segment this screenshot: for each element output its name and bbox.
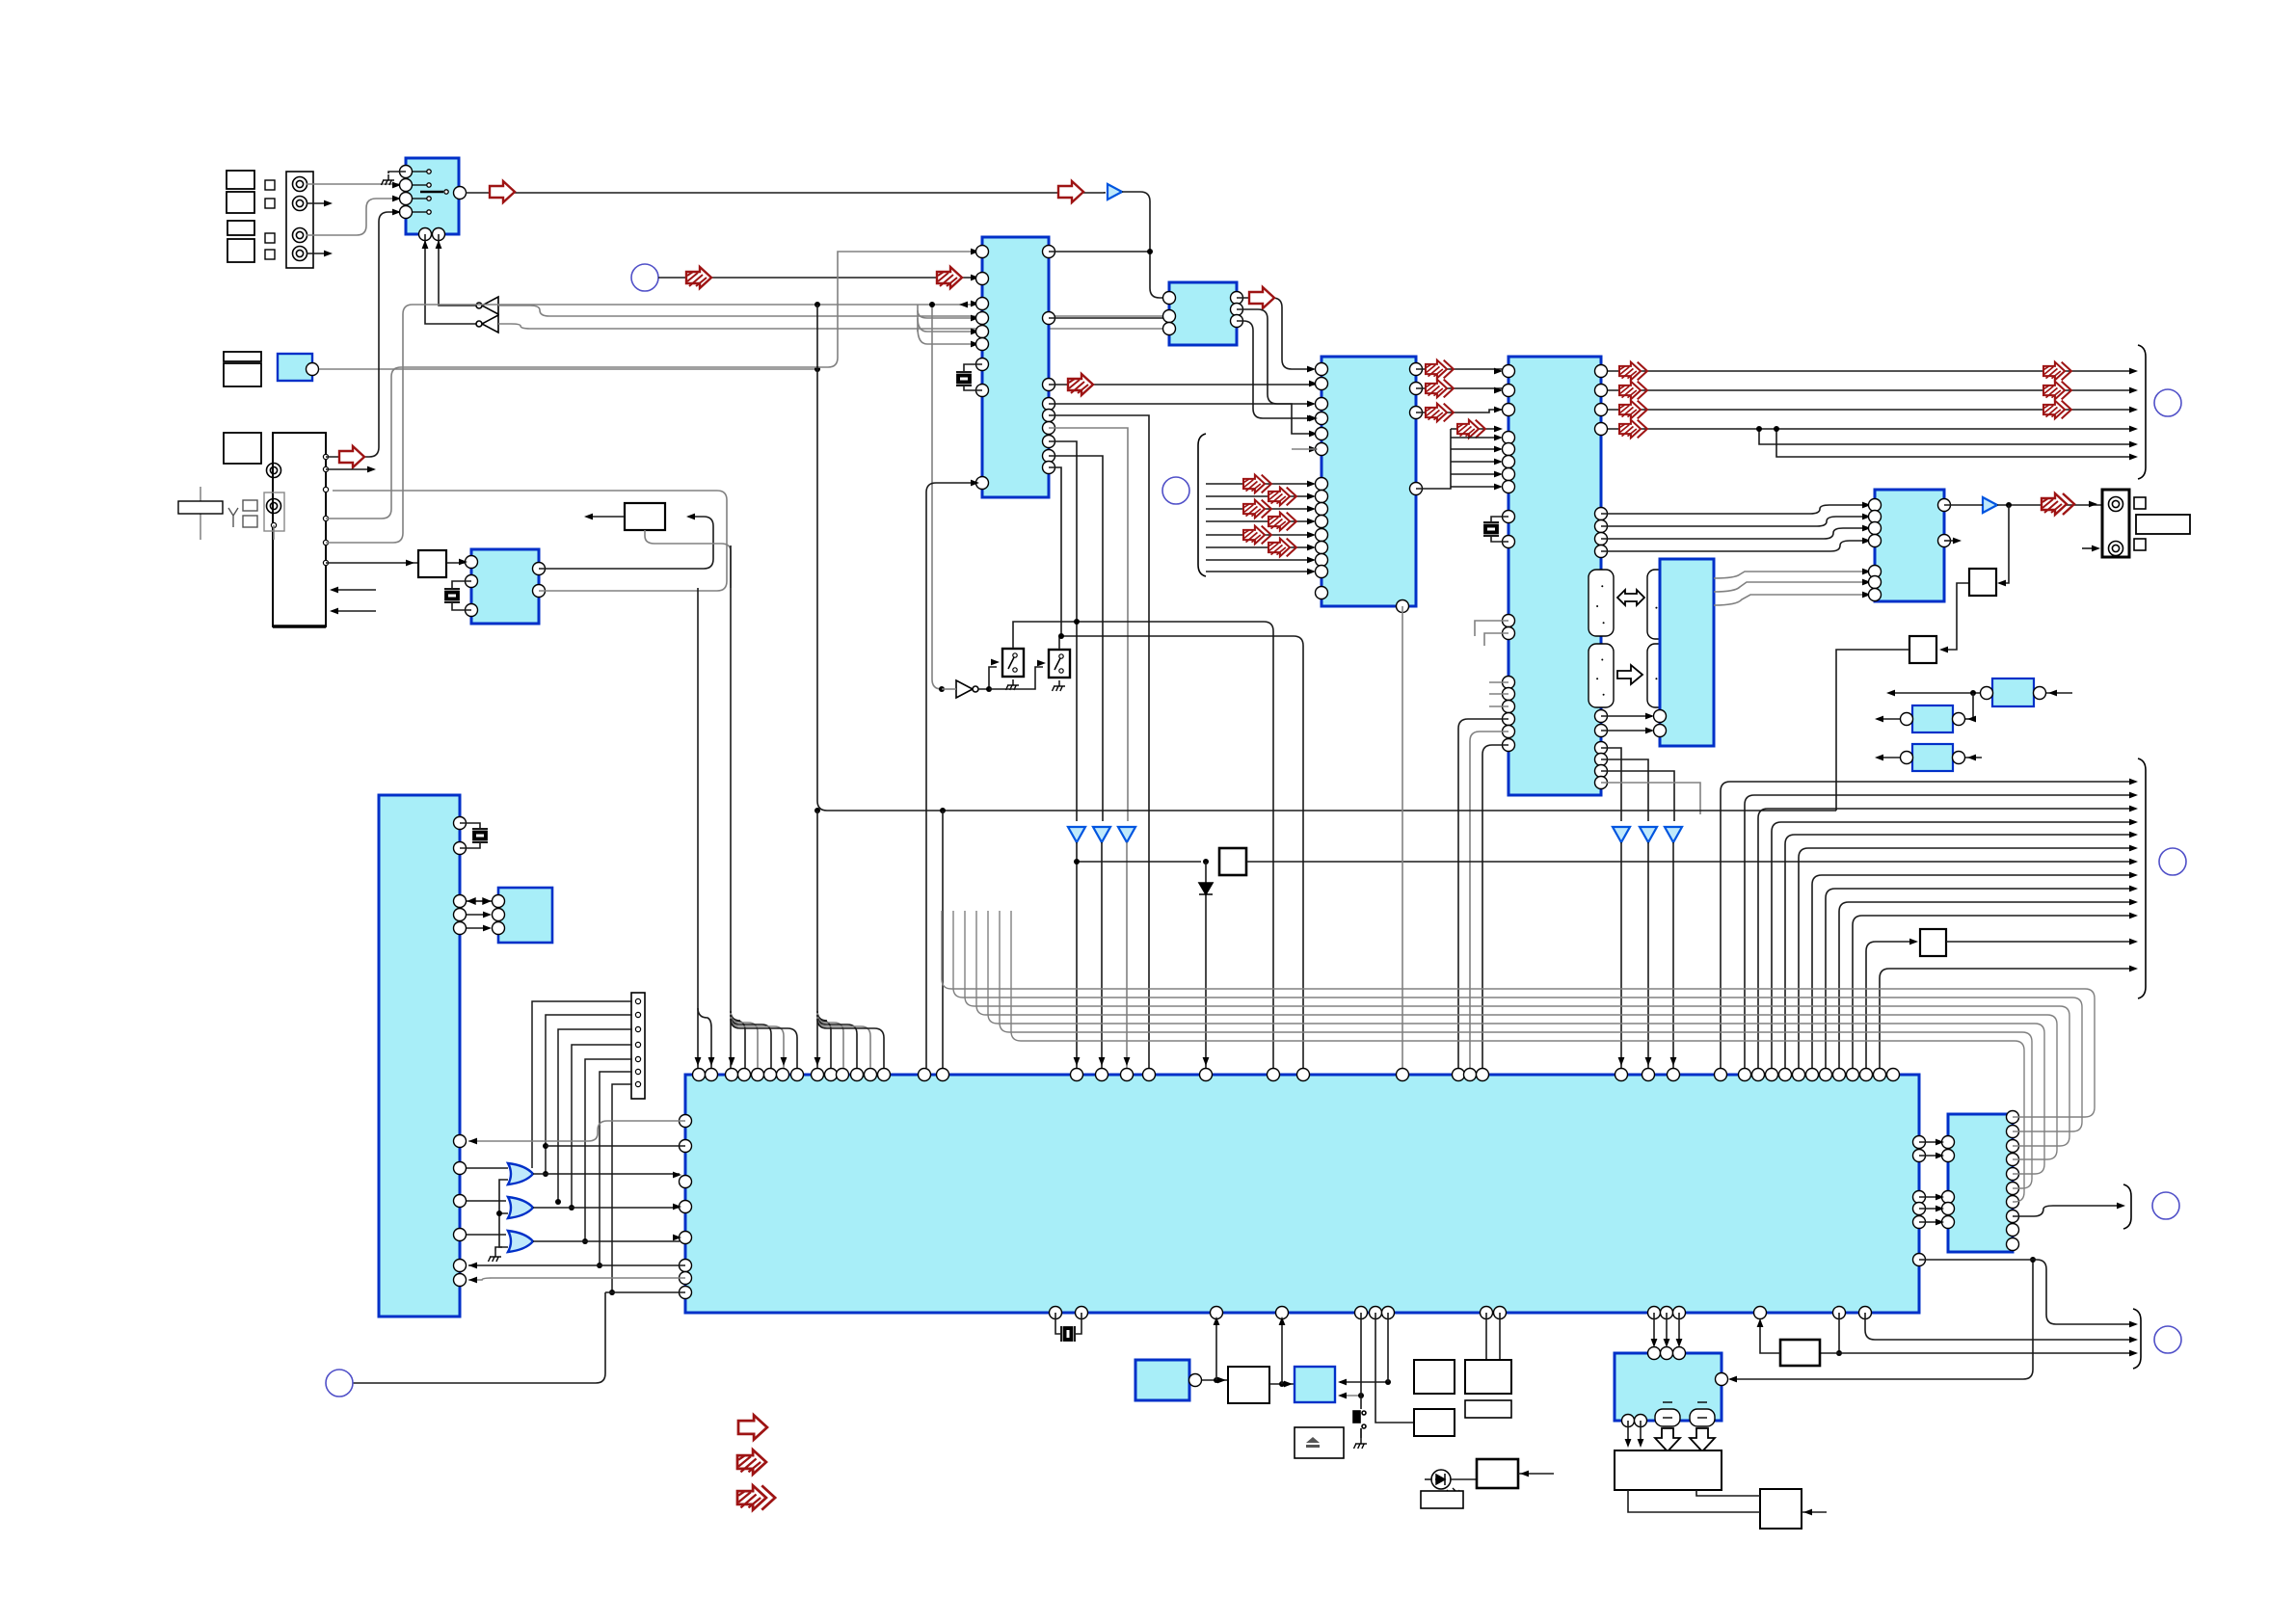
block eject [1295,1427,1344,1458]
arrowhead [1638,1439,1644,1448]
block W21 thick [1477,1459,1518,1488]
wire fan [1206,559,1313,561]
wire [439,234,476,306]
diode D1 [1199,883,1213,894]
wire fan [1451,461,1500,463]
junction [597,1263,602,1268]
wire [460,842,480,848]
antenna rod [200,487,201,540]
arrowhead [483,925,492,932]
arrowhead [1307,532,1316,539]
wire [495,1247,502,1251]
arrowhead [673,1204,681,1211]
wire [1122,192,1162,298]
arrowhead [1214,1317,1220,1325]
wire fan [1206,495,1313,497]
arrowhead [1338,1393,1347,1399]
wire [1997,504,2102,506]
wire [326,562,418,564]
connector arrow [1457,420,1485,439]
arrowhead [1494,407,1503,413]
arrowhead [1886,690,1895,697]
tuner pins [323,454,328,565]
arrowhead [2129,859,2138,865]
off-page ref g [2154,1326,2181,1353]
wire arrows into tuner [332,589,376,591]
wire [1944,540,1959,542]
block W18 [1414,1409,1455,1436]
IC U4 [1322,357,1416,606]
wire [1049,404,1316,434]
connector arrow [1268,488,1296,506]
arrowhead [1494,368,1503,375]
wire fan [731,1019,797,1068]
connector arrow [1619,401,1647,419]
wire out [1608,428,2133,430]
wire feed [698,1008,711,1068]
arrowhead [1862,538,1871,545]
block [224,433,261,464]
wire [499,1180,508,1213]
pins of CN3 [635,998,640,1086]
wire nest [1799,848,2133,1068]
arrowhead [2129,806,2138,812]
arrowhead [1862,514,1871,520]
wire [1049,456,1103,821]
wire [1237,309,1313,404]
arrowhead [2092,545,2100,552]
arrowhead [330,587,338,594]
arrowhead [2129,1337,2138,1344]
wire [1944,504,1983,506]
wire [1269,1383,1295,1385]
wire [333,491,727,591]
arrowhead [1309,446,1318,453]
toggle switch [1353,1411,1366,1438]
pins of U11 left [680,1115,692,1299]
wire nest [1758,809,2133,1068]
junction [1385,1379,1391,1385]
block W20 [1465,1400,1511,1418]
ground [489,1251,502,1262]
wire [1055,1313,1061,1334]
connector arrow [1426,404,1454,422]
junction [939,686,945,692]
wire key nest [585,1059,632,1241]
arrowhead [1645,713,1654,720]
wire [1416,368,1503,370]
wire fan to U2 [918,310,976,318]
IC U2 tuner IF [982,237,1049,497]
pins of U3 right [1231,292,1243,328]
connector arrow [490,181,515,202]
tuner front-end block [273,433,326,626]
wire fan [731,1011,745,1068]
wire [1416,410,1503,412]
pins of U11 top [693,1069,1900,1081]
wire [917,305,919,332]
wire key nest [572,1045,632,1208]
IC U16 power amp [1615,1353,1722,1421]
junction [1203,859,1209,865]
wire [926,483,976,1068]
junction [1836,1350,1842,1356]
arrowhead [2129,913,2138,919]
wire [533,1207,680,1209]
arrowhead [330,608,338,615]
block W14 thick [1780,1340,1820,1366]
connector arrow [1243,475,1271,493]
arrowhead [1939,647,1948,653]
arrowhead [1307,366,1316,373]
LED D2 [1431,1470,1461,1496]
wire [1013,622,1273,1068]
IC U13 [1948,1114,2013,1252]
arrowhead [1217,1377,1226,1384]
wire [467,927,487,929]
legend arrow hatched [737,1450,766,1474]
wire [1126,842,1128,1068]
crystal X5 [472,829,488,842]
legend arrow double [737,1485,775,1509]
wire [1215,1318,1217,1380]
wire fan [817,1017,870,1068]
arrowhead [2129,387,2138,394]
arrowhead [1307,415,1316,422]
wire [499,1213,508,1247]
connector arrow [1268,539,1296,557]
buffer cell [1589,644,1614,707]
arrowhead [1124,1057,1131,1066]
inverter A1 [476,297,498,314]
wire [1450,1478,1477,1480]
arrowhead [2129,426,2138,433]
wire [645,530,731,588]
pins of U6 right [1938,499,1951,547]
wire key nest [558,1029,632,1202]
wire [1820,1352,2133,1354]
fan bracket [2123,1184,2131,1229]
arrowhead [1279,1317,1286,1325]
level shift tri [1613,827,1630,842]
wire [326,252,976,519]
arrowhead [781,1057,788,1066]
wire [1601,505,1869,514]
junction [1074,859,1080,865]
wire [1802,1511,1827,1513]
wire [446,562,466,564]
wire main h-bus [817,305,1836,811]
buffer cell [1589,570,1614,636]
pins of U5 right [1595,365,1608,789]
wire [1919,1155,1942,1157]
wire fan [1206,508,1313,510]
wire fan [817,1019,884,1068]
bidir arrow [467,898,492,904]
wire [468,1121,685,1141]
pin [1901,713,1965,726]
wire bus [1011,911,2024,1202]
wire stub [1292,448,1316,450]
arrowhead [1074,1057,1081,1066]
arrowhead [584,514,593,520]
wire [978,667,997,689]
wire [1776,429,2133,457]
IC U6 [1875,490,1944,601]
wire [1672,842,1674,1068]
wire [1878,757,1900,758]
wire [425,234,476,324]
connector CN1 [286,172,313,268]
junction [814,808,820,813]
arrowhead [422,240,429,249]
switch SW1 [1002,649,1024,677]
arrowhead [1862,569,1871,575]
connector arrow [1426,380,1454,398]
IC U7 memory [1660,559,1714,746]
arrowhead [2129,441,2138,448]
arrowhead [971,329,979,335]
connector arrow [1068,374,1093,395]
pins of U2 right [1043,246,1055,474]
arrowhead [392,182,401,189]
wire [307,183,399,185]
wire [467,1234,506,1236]
wire [1451,428,1496,430]
arrowhead [1307,569,1316,575]
connector arrow [1268,513,1296,531]
pins of U1 [400,166,467,241]
wire [1759,429,2133,444]
wire [1387,1313,1389,1382]
wire [1489,705,1508,707]
arrowhead [673,1172,681,1179]
arrowhead [406,560,414,567]
wire [1485,1313,1487,1360]
dash marks [1673,706,1689,740]
buffer B3 [956,680,978,698]
wire nest [1839,902,2133,1068]
wire [1340,1381,1388,1383]
IC U11 system CPU [685,1075,1919,1313]
arrowhead [2048,690,2057,697]
wire [1730,1260,2033,1379]
RCA jack J4 [293,247,307,261]
arrowhead [2129,939,2138,945]
junction [543,1143,548,1149]
wire bus [988,911,2044,1174]
pins of U16 [1622,1373,1728,1427]
jack [267,499,281,514]
block W15 [1760,1489,1802,1529]
RCA jack J2 [293,197,307,211]
buffer cell [1647,644,1673,707]
arrowhead [1307,493,1316,500]
arrowhead [1651,1339,1658,1347]
wire [605,1291,685,1293]
wire nest [1866,942,1916,1068]
block W12 [1219,848,1246,875]
RCA jack J3 [293,228,307,243]
pins of U5 left [1503,365,1515,752]
wire [326,305,976,543]
wire [1482,745,1508,1068]
wire [1647,842,1649,1068]
block W9 [625,503,665,530]
wire [1375,1313,1414,1423]
off-page ref c [2154,389,2181,416]
wire fan [1451,473,1500,475]
pins of U11 right [1913,1136,1926,1266]
block [227,239,254,262]
arrowhead [1284,1381,1293,1388]
wire [658,277,976,279]
wire bus [976,911,2057,1159]
pins of U7 [1654,710,1667,737]
wire [1640,1421,1642,1444]
wire [460,823,480,829]
pins of U3 left [1163,292,1176,335]
level shift tri [1118,827,1135,842]
wire [1475,621,1508,636]
wire [1049,441,1077,821]
crystal X2 [444,589,460,602]
antenna block [178,501,223,514]
wire [1836,650,1909,811]
plug blade [2136,515,2190,534]
wire nest [1826,889,2133,1068]
IC U1 input switch [406,158,459,234]
wire [1919,1260,2133,1324]
wire [1049,428,1128,821]
small square [2134,497,2146,550]
arrowhead [2129,832,2138,838]
wire fan [1206,534,1313,536]
wire [932,305,942,689]
wire fan to U2 [918,328,976,344]
wire nest [1772,822,2133,1068]
block cassette icons [227,171,254,189]
wire fan [1206,520,1313,522]
arrowhead [1307,557,1316,564]
legend arrow single [738,1415,767,1439]
pins of U16 top [1648,1347,1686,1360]
arrowhead [324,251,333,257]
fan bracket [2138,758,2146,998]
wire [307,199,399,235]
arrowhead [971,341,979,348]
junction [1970,690,1976,696]
switch contacts in U1 [413,170,448,214]
arrowhead [1307,401,1316,408]
arrowhead [1875,755,1883,761]
arrowhead [1203,1057,1210,1066]
arrowhead [2129,779,2138,785]
wire [533,1240,680,1242]
wire [1049,384,1316,386]
off-page ref f [2152,1192,2179,1219]
wire [1049,467,1061,636]
arrowhead [971,301,979,307]
junction [2006,502,2012,508]
wire [1946,941,2133,943]
wire fan to U2 [918,318,976,332]
inverter A2 [476,315,498,333]
wire fan [731,1017,784,1068]
junction [814,302,820,307]
arrowhead [991,659,1000,666]
block W8 [418,550,446,577]
wire [989,667,1043,689]
arrowhead [1618,1057,1625,1066]
wire nest [1880,969,2133,1068]
IC U10 [498,888,552,943]
connector arrow [937,267,962,288]
arrowhead [1953,538,1962,545]
wire fan [817,1011,831,1068]
arrowhead [324,200,333,207]
switch SW2 [1049,650,1070,678]
wire [964,386,982,390]
connector arrow [2043,362,2071,381]
wire fan [731,1013,758,1068]
buffer B2 [1983,497,1997,513]
jack out L [2109,497,2123,512]
wire ground stub [388,172,406,173]
block W11 [1909,636,1936,663]
arrowhead [971,315,979,322]
wire [1889,692,1980,694]
wire [1965,757,1982,758]
IC U14 [1135,1360,1189,1400]
wire bus [965,911,2069,1146]
wire [1760,1320,1780,1353]
arrowhead [1309,381,1318,387]
buffer B1 [1108,184,1122,200]
jack out R [2109,542,2123,556]
arrowhead [468,1277,477,1284]
arrowhead [459,559,467,566]
arrowhead [1862,502,1871,509]
IC U9 key/display [379,795,460,1317]
IC U5 [1508,357,1601,795]
junction [1756,426,1762,432]
wire [546,1145,685,1147]
arrowhead [468,1138,477,1145]
speaker stub [1655,1409,1715,1426]
wire [1049,415,1149,1068]
minus marks [1663,1402,1707,1418]
wire [1059,636,1303,1068]
wire [1246,861,2133,863]
connector arrow [1058,181,1083,202]
wire [307,202,328,204]
pins of U11 bottom [1050,1307,1872,1319]
OR gate G1 [508,1163,533,1184]
arrowhead [1494,435,1503,441]
connector arrow [1243,500,1271,519]
wire [1999,505,2009,583]
arrowhead [1307,506,1316,513]
wire [1076,842,1078,1068]
wire [1237,298,1313,369]
ground [1354,1438,1368,1449]
wire [353,1292,605,1383]
arrowhead [1037,660,1046,667]
IC U1b [278,354,312,381]
connector CN2 [2102,490,2129,557]
wire fan [1451,437,1500,439]
